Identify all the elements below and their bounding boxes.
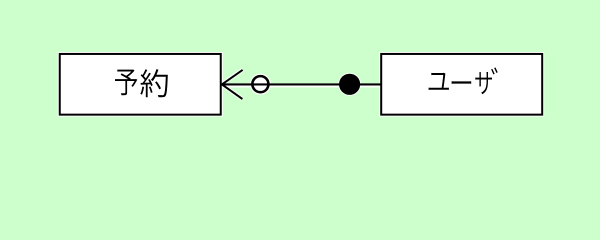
wire: relationship line between 予約 and ユーザ <box>221 83 381 85</box>
crow's foot upper arm at 予約 end <box>222 70 243 85</box>
wire halo: relationship line soft edge <box>223 83 380 87</box>
entity box 予約 halo (white fill + soft white edge) <box>60 54 221 115</box>
entity box ユーザ (right) border <box>381 54 542 115</box>
text ー (label of entity ユーザ) <box>452 81 472 84</box>
crow's foot lower arm at 予約 end <box>222 84 243 99</box>
text ザ dakuten mark <box>491 67 498 74</box>
open circle (zero-or-one marker) ring <box>252 76 268 92</box>
entity box ユーザ halo <box>381 54 542 115</box>
crow's foot upper arm halo <box>224 70 243 83</box>
crow's foot lower arm halo <box>224 86 243 99</box>
open circle marker halo + white fill <box>252 76 268 92</box>
filled circle (mandatory marker) <box>339 74 360 95</box>
text ザ base サ (label of entity ユーザ) <box>475 72 492 94</box>
entity box 予約 (left) border <box>60 54 221 115</box>
text 予 (label of entity 予約) <box>115 70 137 96</box>
text 約 (label of entity 予約) <box>140 69 168 97</box>
filled circle marker halo <box>338 73 361 96</box>
text ユ (label of entity ユーザ) <box>429 73 449 90</box>
